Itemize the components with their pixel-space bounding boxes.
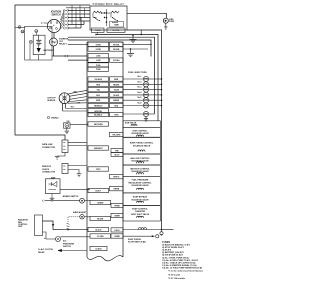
relay K1 coil bbox=[93, 11, 101, 13]
ECM pin label injector 5 left bbox=[88, 98, 109, 102]
svg-text:*3: 97 / 98 models: *3: 97 / 98 models bbox=[168, 278, 186, 280]
ECM pin label PNK2 bbox=[111, 153, 123, 157]
svg-text:LG/B: LG/B bbox=[96, 60, 101, 62]
wire bus 1 bbox=[127, 30, 162, 230]
EGR valve box bbox=[123, 121, 160, 128]
svg-text:SOLENOID VALVE: SOLENOID VALVE bbox=[131, 198, 149, 201]
ECM pin label PG/B bbox=[88, 67, 109, 71]
wire purge flow switch row bbox=[123, 235, 148, 237]
relay box pin label A bbox=[92, 28, 105, 32]
ECM left edge bbox=[86, 42, 88, 257]
wire evap two way valve row bbox=[123, 229, 162, 231]
ECM pin label LTGRN bbox=[90, 234, 111, 238]
wire row 236 bbox=[61, 236, 91, 238]
svg-text:SENSOR: SENSOR bbox=[47, 100, 56, 102]
EGR control solenoid valve bbox=[123, 127, 160, 137]
wire AC pressure left bbox=[46, 238, 56, 240]
svg-text:RELAY: RELAY bbox=[38, 251, 45, 254]
ECM pin label injector 6 left bbox=[88, 103, 109, 107]
ground fuel pump bbox=[165, 23, 167, 26]
ground ref circle G2b bbox=[35, 30, 38, 33]
wire row 228 bbox=[53, 229, 88, 231]
wire ECM row1 to bus bbox=[123, 43, 151, 45]
EVAP two way valve coil bbox=[139, 228, 147, 230]
svg-text:13) No. 8 STARTER SIGNAL (7.5: 13) No. 8 STARTER SIGNAL (7.5 A) bbox=[162, 264, 196, 267]
data link connector bbox=[62, 140, 68, 153]
svg-text:EGR VALVE: EGR VALVE bbox=[125, 122, 137, 125]
svg-text:14 ACD: 14 ACD bbox=[95, 247, 102, 250]
svg-text:DATA LINK: DATA LINK bbox=[42, 143, 53, 146]
svg-text:IAB HIGH CONTROL: IAB HIGH CONTROL bbox=[130, 167, 150, 170]
svg-text:14 ACD: 14 ACD bbox=[95, 228, 102, 231]
svg-text:11) No. 1 BACK UP LIGHTS (10 A: 11) No. 1 BACK UP LIGHTS (10 A) bbox=[162, 261, 195, 264]
ground evap circle bbox=[161, 230, 163, 233]
wire CKP sensor pin4 bbox=[69, 100, 87, 102]
node injector No.2 bus junction bbox=[161, 84, 163, 86]
node injector No.4 bus junction bbox=[161, 94, 163, 96]
svg-text:SERVICE: SERVICE bbox=[42, 166, 52, 168]
ground DLC bbox=[57, 153, 65, 157]
wire terminal row y21 to relay box bbox=[68, 20, 90, 22]
wire ECM power row1 left bbox=[68, 43, 88, 45]
ignition switch SW1 bbox=[47, 19, 60, 32]
wire battery bottom bbox=[38, 55, 40, 60]
svg-text:VENT SHUT VALVE: VENT SHUT VALVE bbox=[131, 213, 150, 216]
dashed wire air valve bbox=[68, 217, 80, 223]
ECM pin label injector 1 right bbox=[110, 77, 124, 81]
node connector on left wire bbox=[18, 26, 21, 29]
ECM top edge bbox=[87, 41, 123, 43]
svg-text:10) No. 4 FUEL PUMP 15 A*1, 20: 10) No. 4 FUEL PUMP 15 A*1, 20 A*2 bbox=[162, 259, 198, 262]
relay box internal bus bbox=[106, 9, 108, 26]
wire injector No.2 right lead bbox=[149, 83, 162, 85]
svg-text:WHT/G: WHT/G bbox=[113, 177, 120, 179]
ECM pin label injector 5 right bbox=[110, 98, 124, 102]
ECM pin label LG/B bbox=[88, 58, 109, 62]
IAB high control solenoid valve bbox=[123, 165, 160, 176]
ground SCC bbox=[77, 173, 82, 175]
battery BAT bbox=[38, 35, 40, 40]
svg-text:BLU/R: BLU/R bbox=[114, 95, 120, 97]
svg-text:POWER BOX RELAY: POWER BOX RELAY bbox=[93, 2, 125, 6]
brake switch bbox=[80, 198, 85, 203]
wire ECM row2 to bus bbox=[123, 48, 148, 50]
ground ref circle G2a bbox=[21, 30, 24, 33]
svg-text:BLK/W: BLK/W bbox=[97, 218, 103, 220]
ECM bottom torn edge bbox=[87, 256, 123, 261]
svg-text:*2: 96 model: *2: 96 model bbox=[168, 274, 180, 276]
svg-text:15) No. 13 FUEL PUMP RESISTOR: 15) No. 13 FUEL PUMP RESISTOR (15 A) bbox=[162, 266, 202, 269]
svg-text:EVAP PURGE: EVAP PURGE bbox=[128, 238, 142, 241]
svg-text:9) No. 2 FUEL PUMP (15 A): 9) No. 2 FUEL PUMP (15 A) bbox=[162, 256, 189, 259]
svg-text:FI E/M: FI E/M bbox=[95, 30, 101, 32]
ECM pin label EGR row bbox=[88, 122, 109, 126]
svg-text:8) IGN (FUSE 50 A)*2: 8) IGN (FUSE 50 A)*2 bbox=[162, 254, 183, 257]
wire CKP sensor pin1 bbox=[69, 90, 88, 94]
IAB low control solenoid valve bbox=[123, 154, 160, 165]
svg-text:CANISTER: CANISTER bbox=[135, 210, 146, 213]
wire ECM power row2 left bbox=[68, 59, 88, 61]
ground ECM logic bbox=[130, 49, 132, 53]
wire terminal row y10.5 to relay box bbox=[68, 10, 90, 12]
svg-text:BRN/B: BRN/B bbox=[113, 100, 119, 102]
wire to AC clutch relay arrow bbox=[58, 250, 87, 252]
wire G1 down bbox=[29, 43, 31, 60]
wire ignition switch to starter cut relay bbox=[53, 32, 55, 38]
svg-text:No.6: No.6 bbox=[138, 103, 142, 105]
wire fan unit to row bbox=[53, 229, 62, 231]
wires CKP sensor bottom stubs bbox=[62, 103, 64, 111]
svg-text:To A/C CLUTCH: To A/C CLUTCH bbox=[38, 248, 54, 251]
wire injector No.6 right lead bbox=[149, 105, 162, 107]
svg-text:SWITCH: SWITCH bbox=[51, 14, 60, 16]
wire bus 2 bbox=[96, 35, 158, 121]
ground battery arrow bbox=[37, 48, 41, 53]
node injector No.1 bus junction bbox=[161, 78, 163, 80]
AC pressure switch bbox=[56, 237, 61, 242]
svg-text:BLU/Y: BLU/Y bbox=[114, 154, 120, 156]
svg-text:*1: In the under-hood fuse/rel: *1: In the under-hood fuse/relay box bbox=[168, 270, 204, 273]
svg-text:PG/B: PG/B bbox=[96, 69, 101, 71]
svg-text:FUEL PRESSURE: FUEL PRESSURE bbox=[132, 180, 149, 182]
wire harness crossing ladder bbox=[66, 7, 90, 9]
svg-text:SOLENOID VALVE: SOLENOID VALVE bbox=[131, 160, 149, 163]
svg-text:YEL/BLK: YEL/BLK bbox=[94, 79, 102, 81]
svg-text:PNK/B: PNK/B bbox=[114, 205, 120, 207]
svg-text:IGNITION: IGNITION bbox=[51, 12, 62, 14]
svg-text:BLK/BLU: BLK/BLU bbox=[94, 114, 103, 116]
wire left main loop bbox=[15, 5, 90, 140]
svg-text:VTEC: VTEC bbox=[96, 169, 101, 171]
ground ref circle G1 bbox=[29, 40, 32, 43]
svg-text:No.4: No.4 bbox=[138, 91, 142, 94]
thermal valve symbol bbox=[67, 223, 70, 229]
svg-text:4) STOP HORN 20 A*1: 4) STOP HORN 20 A*1 bbox=[162, 246, 184, 249]
svg-text:RD K/A: RD K/A bbox=[113, 43, 120, 46]
ECM pin label PNK1 bbox=[111, 149, 123, 153]
ECM pin label row 176 bbox=[110, 174, 124, 178]
CKP CYP sensor bbox=[59, 93, 70, 104]
wire injector No.3 right lead bbox=[149, 89, 162, 91]
node injector No.5 bus junction bbox=[161, 99, 163, 101]
relay K2 coil bbox=[111, 11, 119, 13]
svg-text:RD K/B: RD K/B bbox=[113, 49, 120, 51]
svg-text:H BLU: H BLU bbox=[114, 230, 120, 232]
wire MAP to ECM bbox=[60, 188, 90, 190]
wire fan unit bottom bbox=[43, 232, 47, 239]
svg-text:PG/A: PG/A bbox=[96, 64, 101, 67]
svg-text:STARTER: STARTER bbox=[59, 38, 69, 41]
ECM pin label GRN WHT bbox=[88, 146, 109, 150]
svg-text:ORN: ORN bbox=[114, 114, 119, 116]
node injector No.6 bus junction bbox=[161, 105, 163, 107]
relay K2 contact bbox=[113, 18, 117, 21]
ECM pin label PG/A bbox=[88, 63, 109, 67]
svg-text:No.2: No.2 bbox=[138, 81, 142, 83]
wire loop to battery box bbox=[15, 26, 25, 28]
svg-text:BLK/Y: BLK/Y bbox=[96, 190, 102, 192]
wire bus 4 bbox=[68, 40, 151, 57]
ECM pin label injector 4 right bbox=[110, 93, 124, 97]
svg-text:GRN/R: GRN/R bbox=[114, 215, 120, 217]
wire air valve to ECM bbox=[84, 216, 90, 218]
wire injector No.3 left lead bbox=[123, 89, 143, 91]
svg-text:RED/BLU: RED/BLU bbox=[94, 105, 103, 107]
wires SCC to ECM bbox=[68, 165, 87, 167]
ECM pin label evap byp bbox=[111, 203, 123, 207]
svg-text:WHT/GRN: WHT/GRN bbox=[94, 124, 103, 126]
svg-text:IG COIL: IG COIL bbox=[113, 30, 121, 32]
ECM pin label LG/A bbox=[88, 53, 109, 57]
air assist valve bbox=[80, 215, 84, 219]
relay internal dots extra bbox=[101, 12, 102, 13]
svg-text:BRAKE SWITCH: BRAKE SWITCH bbox=[63, 195, 79, 198]
wire relay pin A drop bbox=[97, 32, 99, 34]
wire CKP sensor pin2 bbox=[70, 93, 87, 96]
ECM pin label GRNRED bbox=[111, 234, 123, 238]
svg-text:YEL/B: YEL/B bbox=[114, 90, 120, 92]
connector terminal T4 ignition switch bbox=[63, 20, 66, 23]
ground MAP bbox=[51, 194, 53, 198]
svg-text:CHECK: CHECK bbox=[42, 169, 50, 171]
svg-text:G2: G2 bbox=[21, 31, 23, 33]
svg-text:IGP/A: IGP/A bbox=[96, 43, 102, 46]
ground main harness bbox=[132, 36, 134, 40]
ECM pin label row 188 left bbox=[88, 188, 109, 192]
ECM pin label injector 4 left bbox=[88, 93, 109, 97]
svg-text:EVAP PURGE CONTROL: EVAP PURGE CONTROL bbox=[130, 142, 154, 145]
node bus junctions bbox=[95, 34, 96, 35]
MAP sensor bbox=[46, 179, 61, 194]
ECM pin label injector 2 right bbox=[110, 82, 124, 86]
wire injector No.2 left lead bbox=[123, 83, 143, 85]
purge flow switch symbol bbox=[148, 235, 155, 237]
svg-text:GRN/BLU: GRN/BLU bbox=[51, 118, 59, 120]
svg-text:AIR ASSIST: AIR ASSIST bbox=[75, 211, 87, 214]
svg-text:No.1: No.1 bbox=[138, 76, 142, 78]
wire fan unit top right bbox=[43, 221, 54, 230]
battery compartment box bbox=[25, 26, 52, 60]
wire battery row to ECM bbox=[52, 55, 87, 57]
connector terminal T5 ignition switch bbox=[63, 23, 66, 26]
ECM pin label IGP/B bbox=[88, 47, 109, 51]
svg-text:SOLENOID VALVE: SOLENOID VALVE bbox=[131, 132, 149, 135]
connector terminal T2 ignition switch bbox=[63, 13, 66, 16]
wire brake switch to ECM bbox=[84, 200, 90, 202]
wire valve to junction bbox=[67, 228, 69, 229]
ECM pin label row 188 right bbox=[110, 186, 124, 190]
svg-text:GRN/R: GRN/R bbox=[114, 236, 120, 238]
connector on battery wire bbox=[64, 55, 66, 57]
wire CKP sensor pin3 bbox=[70, 97, 87, 100]
svg-text:LT GRN: LT GRN bbox=[97, 236, 104, 238]
svg-text:CONNECTOR: CONNECTOR bbox=[42, 147, 56, 149]
svg-text:EVAP BYPASS: EVAP BYPASS bbox=[133, 196, 148, 199]
wire DLC pin2 to ECM bbox=[68, 145, 87, 147]
EVAP purge control solenoid valve bbox=[123, 138, 160, 155]
ECM pin label IGP/A bbox=[88, 42, 109, 46]
wire G2b to battery bbox=[35, 33, 37, 36]
node injector No.3 bus junction bbox=[161, 89, 163, 91]
svg-text:LG/A: LG/A bbox=[96, 55, 101, 58]
wire injector No.4 right lead bbox=[149, 94, 162, 96]
svg-text:SOLENOID VALVE: SOLENOID VALVE bbox=[131, 184, 149, 187]
wire DLC pin1 to ECM bbox=[68, 141, 87, 143]
relay K1 contact bbox=[95, 18, 99, 21]
ECM pin label airsw row bbox=[90, 216, 111, 220]
arrow fan unit wire bbox=[52, 224, 54, 226]
wire right bus to evap bbox=[162, 229, 174, 231]
wire injector No.1 right lead bbox=[149, 78, 162, 80]
wire brake switch left bbox=[45, 200, 80, 202]
ECM pin label injector 3 left bbox=[88, 87, 109, 91]
svg-text:EVAP CONTROL: EVAP CONTROL bbox=[132, 207, 148, 210]
svg-text:GRN/WHT: GRN/WHT bbox=[94, 148, 103, 150]
svg-text:IAB LOW CONTROL: IAB LOW CONTROL bbox=[130, 157, 150, 160]
svg-text:BRN: BRN bbox=[114, 79, 119, 81]
svg-text:FUEL INJECTORS: FUEL INJECTORS bbox=[128, 72, 147, 74]
ECM pin label 14ACD2 bbox=[90, 246, 107, 250]
svg-text:FLOW SWITCH (B): FLOW SWITCH (B) bbox=[128, 242, 146, 244]
ground VSS bbox=[66, 128, 68, 131]
svg-text:BRN: BRN bbox=[96, 100, 101, 102]
ECM pin label injector 1 left bbox=[88, 77, 109, 81]
ECM pin label injector 2 left bbox=[88, 82, 109, 86]
ECM pin label row YEL box bbox=[110, 132, 124, 136]
wire VSS to ECM bbox=[70, 123, 88, 125]
wire ignition switch left stub bbox=[44, 22, 48, 24]
starter cut relay RLY2 bbox=[50, 38, 58, 46]
ECM pin label injector 6 right bbox=[110, 103, 124, 107]
svg-text:REGULATOR CONTROL: REGULATOR CONTROL bbox=[129, 181, 153, 184]
underhood fuse relay box bbox=[90, 6, 127, 30]
connector terminal T6 ignition switch bbox=[63, 27, 66, 30]
svg-text:No.5: No.5 bbox=[138, 97, 142, 99]
ECM pin label VTEC bbox=[88, 167, 109, 171]
ECM pin label vent row bbox=[111, 213, 123, 217]
wire injector No.5 right lead bbox=[149, 99, 162, 101]
svg-text:GRN/W: GRN/W bbox=[97, 202, 103, 204]
wire injector No.5 left lead bbox=[123, 99, 143, 101]
svg-text:ORN/B: ORN/B bbox=[113, 189, 119, 191]
connector terminal T1 ignition switch bbox=[63, 9, 66, 12]
service check connector bbox=[62, 164, 68, 174]
ECM pin label row7 bbox=[88, 109, 109, 113]
ECM pin label 14ACD bbox=[88, 227, 109, 231]
wire starter relay down bbox=[53, 46, 55, 56]
relay box pin label B bbox=[107, 28, 125, 32]
node sensor shield bbox=[47, 116, 49, 118]
svg-text:5) 40 A*2: 5) 40 A*2 bbox=[162, 249, 172, 252]
svg-text:2) BACK UP (RADIO) 7.5 A*1: 2) BACK UP (RADIO) 7.5 A*1 bbox=[162, 244, 191, 247]
wires switch to terminals bbox=[61, 11, 65, 21]
svg-text:6) BATTERY (100 A)*2: 6) BATTERY (100 A)*2 bbox=[162, 251, 184, 254]
svg-text:SOLENOID VALVE: SOLENOID VALVE bbox=[133, 144, 151, 147]
ground IACV bbox=[145, 117, 147, 119]
ECM pin label HBLU bbox=[111, 228, 123, 232]
wire injector No.6 left lead bbox=[123, 105, 143, 107]
ECM power pin labels right col bbox=[110, 42, 124, 46]
svg-text:PUMP: PUMP bbox=[169, 21, 175, 23]
svg-text:PRESSURE: PRESSURE bbox=[63, 243, 75, 245]
battery BAT inner box bbox=[33, 35, 45, 55]
wire SCC to ground bbox=[68, 170, 79, 174]
svg-text:RED/W: RED/W bbox=[113, 84, 119, 86]
fuel pump motor M1 bbox=[163, 18, 168, 23]
wire relay to fuel pump bbox=[127, 13, 166, 18]
connector terminal T3 ignition switch bbox=[63, 16, 66, 19]
idle air control valve IACV bbox=[143, 111, 148, 116]
wire injector No.1 left lead bbox=[123, 78, 143, 80]
svg-text:IGP/B: IGP/B bbox=[96, 49, 102, 51]
svg-text:CONNECTOR: CONNECTOR bbox=[42, 172, 56, 174]
wire bus 3 bbox=[68, 37, 155, 114]
svg-text:FLR A4: FLR A4 bbox=[113, 59, 119, 62]
EVAP bypass solenoid valve bbox=[123, 193, 160, 206]
svg-text:No.3: No.3 bbox=[138, 87, 142, 89]
wire injector No.4 left lead bbox=[123, 94, 143, 96]
svg-text:SWITCH: SWITCH bbox=[63, 246, 71, 248]
ECM pin label brake row bbox=[90, 200, 111, 204]
radiator fan control unit bbox=[35, 215, 43, 236]
svg-text:BATTERY: BATTERY bbox=[44, 49, 55, 52]
node evap junction bbox=[161, 229, 163, 231]
EVAP canister vent shut valve bbox=[123, 206, 160, 222]
ECM right edge bbox=[122, 42, 124, 257]
wire terminal row y14 to relay box bbox=[68, 13, 90, 15]
ECM pin label row8 IACV bbox=[88, 112, 109, 116]
svg-text:YEL/GRN: YEL/GRN bbox=[112, 134, 121, 136]
ECM pin label injector 3 right bbox=[110, 87, 124, 91]
vehicle speed sensor VSS bbox=[64, 123, 71, 128]
wire CKP sensor pin5 bbox=[68, 102, 87, 104]
wire terminal row y17.5 to relay box bbox=[68, 17, 90, 19]
svg-text:A/C: A/C bbox=[63, 240, 67, 243]
svg-text:RELAY 1: RELAY 1 bbox=[59, 43, 68, 46]
fuel pressure regulator control solenoid valve bbox=[123, 176, 160, 193]
